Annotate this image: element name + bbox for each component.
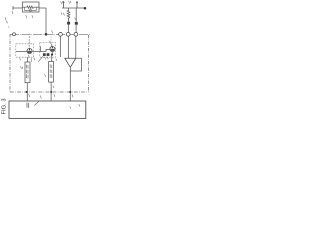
label 18 right of block 2 bbox=[56, 59, 57, 61]
capacitor C branch in box bbox=[25, 7, 37, 10]
transistor T1 bbox=[27, 48, 32, 53]
dashed box around T1 bbox=[16, 44, 34, 57]
supply stub arrow left bbox=[63, 2, 65, 9]
stub right of block 1 top bbox=[31, 58, 33, 62]
input terminal bbox=[12, 6, 14, 9]
component blob lower (diode) bbox=[43, 53, 46, 56]
right chain wire bbox=[75, 8, 77, 22]
label 24a bbox=[29, 94, 30, 97]
wire input to box bbox=[13, 7, 22, 9]
component blob on right chain bbox=[75, 22, 78, 25]
wire down to bus node bbox=[45, 8, 47, 34]
svg-text:FIG. 3: FIG. 3 bbox=[1, 98, 7, 114]
leader line 16 bbox=[38, 56, 43, 62]
label 14 below T1 bbox=[28, 55, 29, 58]
gate wire T1 from bus bbox=[28, 36, 30, 48]
terminal circle left bbox=[13, 33, 16, 36]
label 19 left of block 2 bbox=[45, 74, 46, 77]
label right stub bbox=[69, 1, 71, 4]
transistor T2 bbox=[50, 46, 55, 51]
feedback loop bbox=[70, 58, 81, 71]
top right rail bbox=[62, 7, 85, 9]
wire inside left bbox=[22, 6, 26, 8]
text inside block 2 bbox=[50, 64, 52, 78]
terminal circle B bbox=[66, 32, 70, 36]
output wire bbox=[69, 67, 71, 101]
T2 bottom wire bbox=[51, 52, 53, 55]
dash-dot boundary right edge bbox=[88, 35, 90, 92]
wire below block 1 bbox=[26, 83, 28, 101]
box 1 (RC block) bbox=[22, 2, 39, 12]
label 23 inside box center bbox=[70, 107, 71, 109]
junction dot below T2 bbox=[51, 54, 53, 56]
wire to bus circle bbox=[75, 25, 77, 33]
label 24b bbox=[54, 94, 55, 97]
wire into T1 bbox=[16, 50, 27, 52]
T2 top wire bbox=[51, 44, 53, 47]
rect block 2 bbox=[49, 62, 54, 83]
terminal circle C bbox=[74, 32, 78, 36]
resistor R1 zigzag bbox=[27, 6, 34, 8]
wire inside right bbox=[34, 6, 39, 8]
drop wire from terminal A bbox=[60, 36, 62, 57]
label below right of block 2 bbox=[53, 86, 54, 88]
dash-dot boundary top edge bbox=[10, 33, 90, 35]
text inside big box left bbox=[27, 103, 29, 108]
label 10 right of blob bbox=[74, 17, 77, 20]
component blob on left chain (capacitor) bbox=[67, 22, 70, 25]
label 22 inside box right bbox=[79, 104, 80, 107]
wire to T2 bbox=[40, 50, 49, 52]
capacitor plates bbox=[30, 9, 31, 12]
leader inside big box bbox=[34, 102, 39, 106]
text inside block 1 bbox=[26, 65, 28, 79]
node dot right end bbox=[84, 7, 87, 10]
label UB bbox=[61, 1, 63, 4]
supply stub arrow right bbox=[76, 2, 78, 9]
op-amp input wires bbox=[67, 36, 69, 58]
label 5 near input bbox=[12, 11, 13, 14]
stub up mid bbox=[39, 46, 41, 51]
label 5 with leader at left boundary bbox=[5, 18, 7, 24]
dashed box around T2 bbox=[40, 43, 56, 58]
junction dot on bus bbox=[45, 33, 48, 36]
T1 right wire bbox=[32, 50, 40, 52]
label 16 marks bbox=[45, 57, 49, 60]
label 2 below box bbox=[26, 15, 27, 18]
label 3 below box bbox=[32, 15, 33, 18]
wire below block 2 bbox=[50, 82, 52, 101]
junction dots on bottom boundary bbox=[26, 91, 28, 93]
terminal circle A bbox=[59, 32, 63, 36]
wire above block 1 bbox=[26, 57, 28, 62]
label 9 bbox=[61, 12, 64, 15]
wire box to corner bbox=[39, 7, 46, 9]
label 17 left of block 1 bbox=[21, 66, 23, 69]
label 21 above big box bbox=[40, 96, 41, 99]
rect block 1 bbox=[25, 62, 30, 83]
label 24c bbox=[72, 95, 73, 98]
label 12 above bus bbox=[52, 30, 53, 33]
big box (controller) bbox=[9, 101, 86, 118]
label 15 marks bbox=[20, 58, 35, 61]
dash-dot boundary left edge bbox=[9, 34, 11, 92]
wire to bus circle bbox=[67, 25, 69, 33]
op-amp triangle bbox=[65, 58, 76, 67]
resistor R9 vertical bbox=[67, 8, 70, 22]
label 13 above T2 bbox=[50, 41, 51, 44]
dash-dot boundary bottom edge bbox=[10, 91, 89, 93]
